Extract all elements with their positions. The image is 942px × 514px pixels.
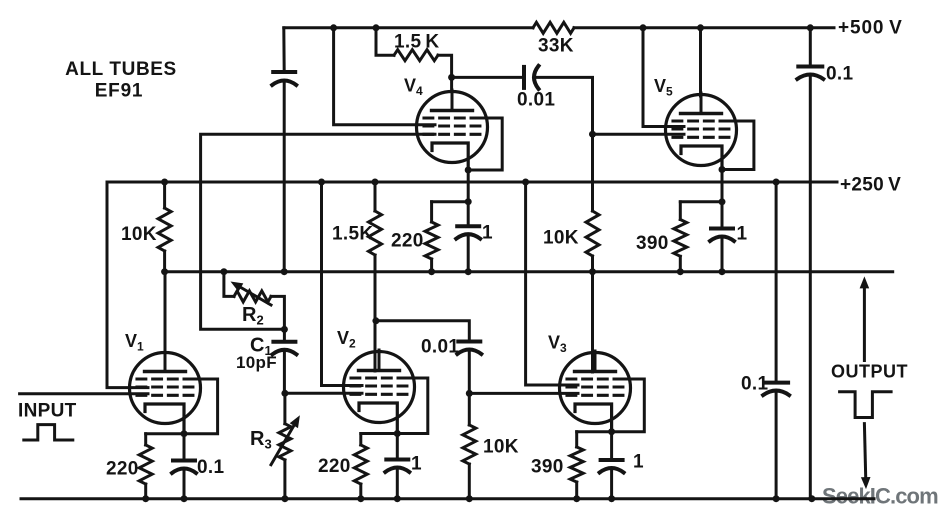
svg-text:10K: 10K — [121, 224, 157, 245]
svg-text:0.1: 0.1 — [826, 64, 853, 85]
capacitor 1 (V5 cathode) — [710, 202, 748, 272]
svg-text:0.01: 0.01 — [421, 337, 459, 358]
watermark SeekIC.com — [822, 484, 938, 509]
node 0.1/ground junction — [181, 495, 188, 502]
wire V2 cathode to 220 resistor — [361, 432, 398, 435]
input pulse waveform symbol — [24, 425, 73, 440]
node V3-10K/ground junction — [466, 495, 473, 502]
node R3/ground junction — [281, 495, 288, 502]
resistor 220 (V4 cathode) — [391, 202, 438, 272]
svg-text:ALL TUBES: ALL TUBES — [65, 59, 177, 80]
label V1 — [125, 331, 144, 354]
node V2-cap/ground junction — [394, 495, 401, 502]
resistor 390 (V5 cathode) — [636, 202, 687, 272]
tube V2 — [344, 350, 415, 437]
node V4 plate junction — [448, 74, 455, 81]
svg-text:INPUT: INPUT — [18, 401, 77, 422]
node +500V/V5-screen junction — [640, 24, 647, 31]
label V2 — [337, 328, 356, 351]
svg-text:10pF: 10pF — [236, 353, 277, 372]
svg-text:220: 220 — [391, 231, 424, 252]
svg-text:+500 V: +500 V — [838, 18, 903, 39]
wire V4 cathode down — [467, 170, 470, 202]
node +250V/V2-screen junction — [318, 179, 325, 186]
label V3 — [548, 333, 567, 356]
wire ground rail (bottom) — [21, 497, 874, 500]
capacitor C1 10pF — [236, 329, 296, 393]
node V2-220/ground junction — [357, 495, 364, 502]
node V4-cap/bus junction — [465, 268, 472, 275]
resistor 390 (V3 cathode) — [531, 432, 583, 499]
wire V1 plate lead — [164, 272, 167, 372]
svg-text:1.5 K: 1.5 K — [394, 32, 439, 53]
svg-text:1: 1 — [411, 454, 422, 475]
node 220/ground junction — [142, 495, 149, 502]
node 10K/bus junction — [161, 268, 168, 275]
svg-text:220: 220 — [318, 456, 351, 477]
node R2/C1/V4-grid junction — [281, 326, 288, 333]
svg-text:10K: 10K — [543, 228, 579, 249]
output pulse waveform symbol — [840, 392, 892, 418]
node +500V/1.5K junction — [373, 24, 380, 31]
wire V2 plate lead — [374, 255, 377, 371]
tube V4 — [417, 90, 488, 174]
tube V5 — [666, 93, 737, 173]
node bus/V3 plate junction — [589, 268, 596, 275]
wire INPUT to V1 control grid — [20, 392, 148, 395]
wire V1 suppressor-to-cathode loop — [184, 379, 218, 434]
label +500V — [838, 18, 903, 39]
wire +500V top rail left section — [284, 26, 533, 29]
wire 0.01 to V5 grid node — [535, 77, 593, 134]
svg-text:390: 390 — [636, 233, 669, 254]
node C1/R3/V2-grid junction — [281, 390, 288, 397]
node bus/R2 junction — [220, 268, 227, 275]
label INPUT — [18, 401, 77, 422]
capacitor 0.01 (V2 to V3 coupling) — [421, 337, 481, 394]
wire 0.01 node to V3 control grid — [469, 392, 578, 395]
output arrow down — [861, 424, 871, 490]
node V5-cap/bus junction — [719, 268, 726, 275]
wire V3 screen grid from +250V — [526, 182, 578, 385]
wire V5 grid node to V5 control grid — [593, 133, 685, 136]
wire V1 cathode to 220 resistor — [146, 432, 184, 435]
capacitor 0.01 (V4 to V5 coupling) — [517, 66, 555, 111]
node V3-cap/ground junction — [608, 495, 615, 502]
node +250V-0.1/ground junction — [773, 495, 780, 502]
resistor 10K (V5 grid) — [543, 134, 599, 272]
svg-text:EF91: EF91 — [95, 81, 144, 102]
variable resistor R3 — [250, 393, 300, 498]
node +250V/1.5K junction — [372, 179, 379, 186]
variable resistor R2 — [224, 272, 285, 330]
node cap/bus junction — [281, 268, 288, 275]
wire +500V top rail right section — [574, 26, 834, 29]
node V2 plate / 0.01 junction — [372, 317, 379, 324]
wire C1 node to V2 control grid — [285, 392, 362, 395]
resistor 33K (series in +500V rail) — [533, 22, 574, 56]
capacitor 1 (V4 cathode) — [456, 202, 493, 272]
wire V4 suppressor-to-cathode loop — [468, 118, 502, 170]
node +500V/0.1 junction — [807, 24, 814, 31]
capacitor 1 (V3 cathode) — [600, 432, 644, 499]
wire V5 cathode to 390 resistor — [680, 200, 722, 203]
wire V5 suppressor-to-cathode loop — [720, 121, 754, 170]
svg-text:0.1: 0.1 — [197, 457, 224, 478]
node V4-220/bus junction — [428, 268, 435, 275]
svg-text:+250 V: +250 V — [840, 175, 901, 196]
node V4 cathode network junction — [465, 198, 472, 205]
tube V1 — [130, 351, 201, 437]
wire V2 screen grid from +250V — [322, 182, 363, 386]
capacitor 0.1 (+500V decoupling) — [797, 28, 853, 499]
svg-text:0.01: 0.01 — [517, 90, 555, 111]
label EF91 — [95, 81, 144, 102]
label OUTPUT — [831, 362, 908, 382]
node +500V/V5-plate junction — [697, 24, 704, 31]
resistor 1.5K (V4 plate load) — [376, 28, 452, 78]
wire V3 plate lead — [591, 272, 594, 372]
svg-text:390: 390 — [531, 457, 564, 478]
svg-text:1.5K: 1.5K — [332, 224, 373, 245]
node 0.1/ground junction — [808, 495, 815, 502]
wire V4 plate to 0.01 cap — [452, 76, 524, 79]
svg-text:220: 220 — [106, 459, 139, 480]
label V4 — [404, 76, 423, 99]
resistor 1.5K (V2 plate load) — [332, 182, 382, 255]
capacitor 0.1 (+250V decoupling) — [741, 182, 789, 499]
capacitor (top left, V4 grid feedback) — [272, 28, 296, 272]
node +250V/10K junction — [161, 179, 168, 186]
node V3-390/ground junction — [573, 495, 580, 502]
wire V2 suppressor-to-cathode loop — [397, 378, 428, 434]
node +250V/0.1 junction — [773, 179, 780, 186]
svg-text:SeekIC.com: SeekIC.com — [822, 484, 938, 509]
svg-text:33K: 33K — [538, 36, 574, 57]
wire V4 grid to C1 node — [201, 134, 435, 329]
wire V5 screen grid from +500V rail — [643, 28, 684, 127]
resistor 220 (V2 cathode) — [318, 434, 367, 499]
tube V3 — [560, 351, 631, 435]
node 0.01/10K/V3-grid junction — [466, 390, 473, 397]
wire V5 plate lead — [699, 28, 702, 96]
wire common bus (mid rail) — [165, 270, 893, 273]
svg-text:1: 1 — [737, 224, 748, 245]
wire +250V rail — [107, 181, 837, 184]
wire V5 cathode down — [721, 170, 724, 202]
resistor 10K (V3 grid) — [463, 393, 519, 498]
node V5-390/bus junction — [677, 268, 684, 275]
svg-text:1: 1 — [482, 223, 493, 244]
wire V4 cathode to 220 resistor — [432, 200, 469, 203]
svg-text:1: 1 — [633, 452, 644, 473]
capacitor 0.1 (V1 cathode) — [172, 434, 224, 499]
node V5 cathode network junction — [719, 198, 726, 205]
wire V1 screen grid from +250V rail end — [107, 182, 148, 388]
wire V4 plate lead — [450, 77, 453, 90]
svg-text:0.1: 0.1 — [741, 374, 768, 395]
resistor 220 (V1 cathode) — [106, 434, 152, 499]
resistor 10K (V1 plate load) — [121, 182, 171, 272]
node +500V/V4-screen junction — [330, 24, 337, 31]
wire V4 screen grid from +500V rail — [334, 28, 435, 125]
wire V3 suppressor-to-cathode loop — [612, 379, 645, 432]
output arrow up — [860, 276, 870, 360]
capacitor 1 (V2 cathode) — [385, 434, 422, 499]
node 0.01/10K/V5-grid junction — [589, 131, 596, 138]
wire V3 cathode to 390 resistor — [577, 430, 612, 433]
svg-text:OUTPUT: OUTPUT — [831, 362, 908, 382]
label +250V — [840, 175, 901, 196]
label V5 — [654, 76, 673, 99]
svg-text:10K: 10K — [483, 437, 519, 458]
node +250V/V3-screen junction — [522, 179, 529, 186]
label ALL TUBES — [65, 59, 177, 80]
wire V2 plate to 0.01 cap — [376, 321, 469, 342]
